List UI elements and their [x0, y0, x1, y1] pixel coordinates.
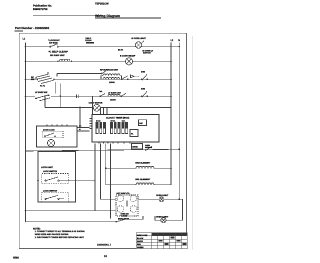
clock timer block: [92, 115, 159, 143]
svg-text:Part Number - 316002061: Part Number - 316002061: [15, 26, 50, 30]
svg-text:L1: L1: [23, 37, 26, 40]
part number bottom: [97, 244, 112, 247]
label above dashed box2: [43, 190, 58, 193]
junction L1 rung2: [25, 60, 27, 62]
label oven light switch: [143, 49, 154, 54]
svg-text:WIRE CODE: WIRE CODE: [137, 234, 148, 237]
label below indicator box: [118, 217, 129, 220]
node L2 label: [171, 39, 174, 42]
junction N rung150: [179, 149, 181, 151]
header wiring diagram title: [95, 14, 120, 18]
svg-text:CLOCK / TIMER (EOC): CLOCK / TIMER (EOC): [106, 116, 129, 119]
junction N rung1: [179, 46, 181, 48]
svg-text:GREEN: GREEN: [137, 246, 144, 249]
svg-text:B CONV RECEP: B CONV RECEP: [120, 55, 136, 58]
wires into clock block top: [93, 96, 108, 114]
label above lamp2: [156, 215, 169, 218]
oven light lamp on rung1: [135, 41, 144, 49]
switch on bottom rung b: [115, 219, 126, 222]
wire L1 bus: [25, 42, 27, 222]
label above lamp1: [156, 194, 169, 197]
switch inside dashed box1: [45, 177, 64, 181]
wire rung 4: [26, 95, 172, 97]
junction L1 rung4: [25, 95, 27, 97]
junction L2 rung2: [170, 60, 172, 62]
junction L1 rung1: [25, 46, 27, 48]
wire rung 1: [26, 46, 180, 48]
wire color code table: [136, 233, 187, 249]
broil element resistor: [136, 183, 154, 185]
label door lock switch inside box: [43, 128, 55, 131]
switch after resistor rung4: [121, 93, 126, 97]
switch right rear surface unit switch (rung1): [50, 44, 59, 48]
wire lamp1 connections: [138, 199, 183, 220]
svg-text:LF SURF SW: LF SURF SW: [35, 91, 47, 94]
latch box title: [41, 166, 54, 169]
table left column text: [137, 234, 148, 249]
svg-text:1500W: 1500W: [110, 98, 116, 101]
svg-text:B OVEN LIGHT: B OVEN LIGHT: [132, 37, 147, 40]
table body marks: [159, 237, 187, 245]
wire N bus: [178, 42, 180, 199]
small box F1 inside clock: [130, 130, 138, 137]
oven sensor box on rung150: [132, 144, 143, 150]
wire rung long y150: [26, 149, 180, 151]
switch inside dashed box2: [45, 195, 64, 199]
labels above indicator box: [117, 192, 131, 195]
svg-text:CONV MOTOR: CONV MOTOR: [89, 102, 103, 105]
wire upper feed rung3: [57, 74, 102, 77]
dashed switch box 1: [42, 174, 69, 184]
wire rung 5: [45, 107, 171, 109]
svg-text:SW 8026: SW 8026: [49, 42, 58, 45]
label bake element: [135, 162, 151, 165]
dashed inner switch box: [43, 131, 63, 137]
junction L1 rung3: [25, 78, 27, 80]
svg-text:SENS: SENS: [132, 146, 138, 149]
node L1 label: [23, 37, 26, 40]
latch box assembly: [38, 152, 76, 203]
short rule under part number: [14, 30, 23, 32]
svg-text:BKE ELEMENT: BKE ELEMENT: [135, 162, 151, 165]
label below resistor rung4: [110, 98, 116, 101]
header rule right under title: [95, 17, 161, 19]
svg-text:* LT SW: * LT SW: [121, 215, 128, 218]
label STB rung4: [141, 87, 146, 90]
svg-text:STB: STB: [141, 87, 146, 90]
resistor rung4: [108, 94, 120, 96]
small display box inside clock: [139, 120, 147, 126]
svg-text:SW: SW: [31, 78, 34, 81]
switch after resistors rung3: [121, 76, 128, 80]
wire labels on box wires: [79, 125, 82, 132]
svg-text:BLACK: BLACK: [137, 237, 144, 240]
junction L1 bottom a: [25, 210, 27, 212]
oven light lamp right 2: [161, 218, 166, 223]
junction L2 rung5: [170, 107, 172, 109]
wire rung 3: [26, 78, 172, 80]
label STB rung3: [141, 71, 146, 74]
door lock motor circle: [47, 139, 54, 146]
svg-text:L2: L2: [171, 39, 174, 42]
clock block left terminal stubs: [90, 119, 93, 129]
part number text: [15, 26, 50, 30]
svg-text:WIRE SIZES AND GAUGES SHOWN.: WIRE SIZES AND GAUGES SHOWN.: [35, 233, 70, 236]
dashed switch box 2: [42, 192, 69, 201]
junction drop rung4: [60, 95, 62, 97]
header rule left: [33, 14, 103, 16]
label above cluster rung4: [35, 91, 47, 94]
svg-text:0596: 0596: [13, 257, 19, 260]
limiter switch rung4: [99, 90, 105, 97]
clock block title: [106, 116, 129, 119]
relay bars group1: [96, 120, 106, 134]
outer border frame: [19, 33, 186, 248]
scan shadow line right: [192, 36, 194, 250]
fuse link bar on rung 1: [86, 42, 94, 44]
switch STB rung4: [141, 91, 148, 97]
label above switch rung1: [48, 39, 60, 44]
svg-text:316002061 J: 316002061 J: [97, 244, 112, 247]
wire lamp2 left: [155, 216, 161, 220]
svg-text:N: N: [178, 39, 180, 42]
svg-text:MDL: MDL: [122, 120, 126, 123]
svg-text:BRL ELEMENT: BRL ELEMENT: [135, 178, 150, 181]
label broil element: [135, 178, 150, 181]
svg-text:RR SURF UNIT: RR SURF UNIT: [50, 54, 65, 57]
label above oven light: [132, 37, 147, 40]
vertical cluster drop to rung4: [59, 84, 61, 108]
wire color text right rung1: [118, 49, 123, 52]
dual surface element resistors rung3: [101, 74, 122, 79]
svg-text:BK W: BK W: [118, 49, 123, 52]
text below rung1: [49, 51, 68, 54]
motor circle on rung5: [93, 104, 100, 111]
svg-text:TEF351CW: TEF351CW: [95, 3, 109, 6]
clock block bottom terminal ticks: [99, 142, 130, 144]
svg-text:DOOR LOCK: DOOR LOCK: [43, 128, 55, 131]
label above dashed box1: [43, 170, 58, 173]
svg-text:NOTE:: NOTE:: [33, 227, 41, 230]
switch STB rung3: [141, 74, 148, 80]
footer 0596: [13, 257, 19, 260]
svg-text:OVEN LIGHT: OVEN LIGHT: [156, 194, 169, 197]
switch cluster left rung4: [35, 91, 51, 101]
junction latch box left: [37, 179, 39, 181]
switch cluster left rung3: [36, 72, 56, 84]
svg-text:RF SURFACE UNIT: RF SURFACE UNIT: [100, 69, 119, 72]
wires door lock box to clock block: [77, 128, 90, 132]
label left of cluster rung3: [31, 76, 45, 88]
wire bottom rung b: [26, 216, 144, 222]
bake element resistor: [136, 166, 154, 168]
svg-text:*C SELF CLEAN*: *C SELF CLEAN*: [49, 51, 68, 54]
label below resistors rung3: [109, 81, 115, 84]
label above bottom switch: [121, 213, 130, 218]
svg-text:STB: STB: [141, 71, 146, 74]
svg-text:2. DISCONNECT POWER BEFORE SER: 2. DISCONNECT POWER BEFORE SERVICING UNI…: [35, 236, 85, 239]
wire L2 corner down to broil: [170, 168, 172, 185]
dashed circle lamp 3: [117, 206, 124, 213]
svg-text:TML: TML: [99, 90, 102, 93]
connector bracket on rung4: [77, 95, 79, 98]
svg-text:HOT SURF LTS: HOT SURF LTS: [117, 192, 131, 195]
header model number: [95, 3, 109, 6]
header publication no. text: [33, 4, 52, 11]
svg-text:SENSOR: SENSOR: [145, 146, 153, 149]
svg-text:10: 10: [104, 255, 107, 258]
wire rung 2: [26, 60, 172, 62]
junction L2 rung4: [170, 95, 172, 97]
footer page number: [104, 255, 107, 258]
junction L2 rung3: [170, 78, 172, 80]
svg-text:SWITCH: SWITCH: [143, 52, 151, 55]
svg-text:LATCH UNIT: LATCH UNIT: [41, 166, 54, 169]
connector arrow rung3: [131, 75, 140, 78]
dashed circle lamp 4: [130, 206, 137, 213]
svg-text:LOCK SWITCH: LOCK SWITCH: [43, 190, 58, 193]
dashed circle lamp 1: [117, 195, 124, 202]
svg-text:P1 P2: P1 P2: [40, 84, 45, 87]
svg-text:CLEAN: CLEAN: [85, 39, 92, 42]
svg-text:1. CONNECT WIRES TO ALL TERMIN: 1. CONNECT WIRES TO ALL TERMINALS AS SHO…: [35, 230, 86, 233]
junction latch wire on vertical: [94, 180, 96, 182]
label above receptacle: [120, 55, 136, 58]
door lock motor box: [37, 124, 78, 147]
indicator dashed box: [116, 195, 138, 216]
dashed circle lamp 2: [130, 195, 137, 202]
svg-text:2350W: 2350W: [109, 81, 115, 84]
broil element rung: [106, 184, 171, 186]
receptacle circle on rung2: [125, 58, 132, 65]
junction L2 bake: [170, 168, 172, 170]
notes block: [33, 227, 85, 239]
label oven sensor below clock: [145, 144, 153, 149]
junction bake feed: [105, 168, 107, 170]
oven light lamp right 1: [159, 197, 164, 202]
limiter switch upper: [101, 71, 106, 74]
relay bars group3: [122, 120, 128, 134]
wire bottom rung a: [26, 210, 117, 212]
svg-text:LOCK SWITCH: LOCK SWITCH: [43, 170, 58, 173]
label above resistors rung3: [100, 69, 119, 72]
wire drop right of box: [79, 106, 81, 127]
indicator middle connector: [126, 201, 128, 207]
svg-text:BROIL: BROIL: [111, 120, 116, 123]
svg-text:Wiring Diagram: Wiring Diagram: [95, 14, 120, 18]
wire L2 bus: [170, 42, 172, 168]
junction L1 rung150: [25, 150, 27, 152]
svg-text:WHITE: WHITE: [137, 240, 144, 243]
node N label: [178, 39, 180, 42]
label above resistor rung4: [108, 91, 122, 94]
wire rung5 left drop: [45, 82, 55, 108]
svg-text:LF SURF UNIT: LF SURF UNIT: [108, 91, 122, 94]
svg-text:5995271708: 5995271708: [33, 8, 48, 11]
svg-text:OVEN LIGHT: OVEN LIGHT: [156, 215, 169, 218]
relay bars group2: [111, 120, 121, 134]
bake element rung: [106, 167, 171, 169]
junction lamp1 right: [179, 199, 181, 201]
wires from clock bottom down: [95, 144, 116, 219]
resistor surface unit rung2: [57, 59, 72, 62]
wire latch box out right: [64, 180, 95, 182]
switch on rung150: [145, 147, 152, 151]
label above resistor rung2: [50, 54, 65, 57]
label above motor rung5: [89, 102, 103, 105]
label above fuse link rung1: [85, 37, 92, 42]
